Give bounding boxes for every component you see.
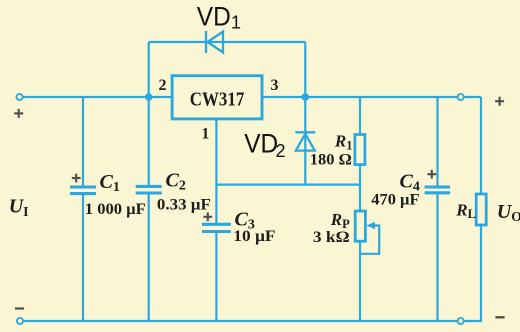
svg-text:10 µF: 10 µF xyxy=(233,228,275,245)
wire: C1 column top xyxy=(82,97,84,186)
wire: C2 column bottom xyxy=(148,194,150,321)
op-amp U1 regulator CW317 box xyxy=(172,76,262,119)
wire: C1 column bottom xyxy=(82,195,84,321)
label C1 plus xyxy=(72,174,81,183)
wire: C4 column top xyxy=(436,97,438,186)
wire: RP bottom lead xyxy=(359,241,361,321)
wire: VD1 branch left vertical xyxy=(148,42,150,97)
capacitor C4 (polarized) xyxy=(425,187,451,193)
wire: C4 column bottom xyxy=(436,194,438,321)
svg-text:3 kΩ: 3 kΩ xyxy=(313,229,350,246)
label input minus sign xyxy=(15,307,24,309)
svg-text:0.33 µF: 0.33 µF xyxy=(157,196,211,213)
wire: VD1 top rail xyxy=(149,41,306,43)
node: junction dot input/VD1/C2 xyxy=(145,93,153,101)
svg-text:1: 1 xyxy=(201,126,209,143)
svg-text:CW317: CW317 xyxy=(190,88,245,110)
terminal: input + xyxy=(16,94,22,100)
wire: R1 top lead xyxy=(359,97,361,135)
wire: pin 1 drop from CW317 to C3 xyxy=(215,119,217,223)
svg-text:2: 2 xyxy=(276,141,286,161)
wire: adjust net horizontal (pin1 to R1/RP junction) xyxy=(216,184,360,186)
svg-text:180 Ω: 180 Ω xyxy=(310,152,352,169)
node: junction dot output/VD1/VD2 xyxy=(302,93,310,101)
wire: RL column with top corner xyxy=(480,97,482,194)
wire: RP wiper short to bottom xyxy=(360,226,379,254)
wire: VD1 branch right vertical xyxy=(304,42,306,97)
wire: VD2 column xyxy=(304,97,306,185)
svg-text:VD: VD xyxy=(197,1,231,31)
svg-text:2: 2 xyxy=(159,77,167,94)
wire: C3 column bottom xyxy=(215,232,217,321)
svg-text:470 µF: 470 µF xyxy=(371,192,419,209)
svg-text:1: 1 xyxy=(231,13,241,33)
resistor RL load xyxy=(476,194,486,225)
wire: input rail from + terminal to CW317 pin 2 xyxy=(23,96,172,98)
diode VD1 xyxy=(206,31,223,53)
terminal: output - xyxy=(458,318,464,324)
resistor R1 xyxy=(355,135,365,165)
label C4 plus xyxy=(427,170,436,179)
svg-text:3: 3 xyxy=(271,77,279,94)
label input plus sign xyxy=(14,109,23,118)
label C3 plus xyxy=(203,212,212,221)
capacitor C2 xyxy=(136,186,162,193)
potentiometer RP wiper arrow xyxy=(366,222,375,229)
svg-text:1 000 µF: 1 000 µF xyxy=(85,201,146,218)
terminal: input - xyxy=(17,318,23,324)
wire: C2 column top xyxy=(148,97,150,185)
diode VD2 xyxy=(295,132,315,150)
wire: output rail pin 3 to RL corner xyxy=(262,96,481,98)
potentiometer RP xyxy=(355,211,365,241)
label output plus sign xyxy=(495,97,504,106)
capacitor C1 (polarized) xyxy=(70,187,96,194)
wire: RL bottom lead to output - terminal xyxy=(465,225,482,321)
terminal: output + xyxy=(458,94,464,100)
svg-text:VD: VD xyxy=(244,129,278,159)
label output minus sign xyxy=(495,316,504,318)
capacitor C3 (polarized) xyxy=(202,224,231,231)
wire: bottom rail xyxy=(24,320,458,322)
wire: R1 to RP lead xyxy=(359,165,361,211)
